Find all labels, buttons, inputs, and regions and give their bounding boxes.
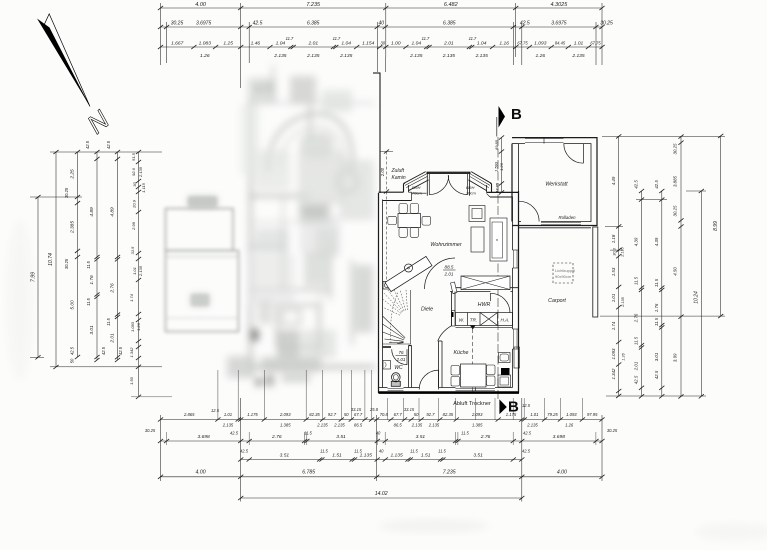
closet row with X (461, 276, 510, 290)
svg-text:1.01: 1.01 (132, 267, 137, 275)
dimension 2.00 Zuluft (dashed) (380, 149, 393, 282)
svg-text:1.76: 1.76 (654, 303, 659, 312)
svg-text:W.: W. (459, 318, 464, 323)
appliance row W TR X HA (456, 313, 513, 330)
svg-text:97.95: 97.95 (587, 412, 598, 417)
svg-text:1.04: 1.04 (412, 41, 422, 47)
roller shutter box outside right wall (514, 347, 520, 368)
svg-text:11.5: 11.5 (86, 260, 91, 268)
svg-text:1.115: 1.115 (141, 182, 146, 192)
left dimension chain 7.99 (31, 195, 41, 360)
left dimension chain C (2.25 2.385 5.00) (64, 150, 80, 363)
north arrow (37, 14, 115, 140)
svg-text:12.5: 12.5 (211, 408, 220, 413)
svg-text:30.25: 30.25 (171, 21, 184, 27)
svg-text:42.5: 42.5 (85, 140, 90, 149)
dryer exhaust dashed line (472, 329, 474, 392)
svg-text:4.00: 4.00 (557, 470, 567, 476)
svg-text:5.00: 5.00 (70, 300, 76, 310)
svg-text:8.99: 8.99 (713, 221, 719, 231)
svg-text:BRH: BRH (466, 185, 475, 190)
svg-text:30: 30 (381, 41, 386, 46)
extension line at 396.8 left (131, 396, 172, 398)
svg-text:4.50: 4.50 (673, 267, 678, 276)
WC washbasin (383, 361, 391, 370)
WC door arc (392, 349, 407, 364)
svg-text:4.49: 4.49 (611, 176, 616, 185)
svg-text:6.385: 6.385 (307, 21, 320, 27)
interior wall WC east (409, 346, 412, 388)
HWR door arc (491, 293, 511, 313)
svg-text:33.15: 33.15 (351, 407, 362, 412)
svg-text:70.8: 70.8 (380, 412, 389, 417)
left dimension chain D (4.89 1.76 3.01) (85, 140, 106, 362)
svg-text:2.135: 2.135 (222, 423, 234, 428)
kitchen door arc (438, 326, 451, 341)
svg-text:67.7: 67.7 (394, 412, 403, 417)
fireplace corner square (383, 282, 391, 290)
svg-text:2.135: 2.135 (339, 53, 353, 59)
stairs (383, 290, 411, 344)
bottom block extension verticals (161, 398, 603, 502)
blurred neighbour house half (188, 65, 375, 387)
bottom row A sub-labels (222, 423, 574, 428)
svg-text:4.00: 4.00 (195, 2, 207, 8)
french door jambs (427, 172, 469, 196)
svg-text:6.785: 6.785 (302, 470, 315, 476)
svg-text:30: 30 (132, 182, 137, 187)
svg-text:50: 50 (70, 358, 75, 363)
svg-text:12.5: 12.5 (522, 403, 531, 408)
svg-text:1.51: 1.51 (332, 453, 342, 459)
svg-text:11.5: 11.5 (86, 297, 91, 305)
svg-text:11.7: 11.7 (469, 36, 477, 41)
section line B-B (497, 137, 499, 399)
bottom wall (thick) (379, 388, 520, 393)
left dimension chain E (4.89 2.76 2.01) (106, 140, 123, 362)
svg-text:3.698: 3.698 (197, 434, 210, 440)
svg-text:Diele: Diele (421, 307, 433, 313)
svg-text:51.5: 51.5 (131, 152, 136, 161)
window bottom kitchen (456, 388, 496, 392)
svg-text:30.3: 30.3 (613, 247, 617, 255)
svg-text:1.093: 1.093 (130, 321, 135, 332)
bay right angled window wall (468, 172, 491, 191)
svg-text:11.5: 11.5 (354, 449, 362, 454)
svg-text:11.5: 11.5 (106, 317, 111, 325)
svg-text:42.5: 42.5 (520, 21, 530, 27)
label 88.5/2.01 (443, 265, 456, 277)
svg-text:Kamin: Kamin (392, 175, 406, 181)
right dimension chain 10.24 (694, 189, 704, 399)
bay left angled window wall (404, 172, 429, 191)
kitchen lower unit (498, 375, 511, 387)
svg-text:2.01: 2.01 (110, 333, 116, 344)
label Zuluft Kamin (391, 168, 406, 181)
svg-text:3.51: 3.51 (473, 453, 483, 459)
svg-text:82.35: 82.35 (443, 412, 454, 417)
svg-text:BRH: BRH (412, 185, 421, 190)
svg-text:2.76: 2.76 (634, 313, 639, 323)
label Diele (421, 307, 433, 313)
svg-text:42.5: 42.5 (240, 449, 249, 454)
label Kueche (453, 350, 468, 356)
svg-text:Wohnzimmer: Wohnzimmer (430, 242, 461, 248)
svg-text:42.5: 42.5 (101, 346, 106, 355)
svg-text:2.135: 2.135 (273, 53, 287, 59)
party wall upper line (373, 73, 380, 194)
svg-text:1.16: 1.16 (499, 41, 509, 47)
svg-text:42.5: 42.5 (253, 21, 263, 27)
svg-text:70cm: 70cm (412, 191, 422, 196)
svg-text:6.385: 6.385 (443, 21, 456, 27)
HWR west wall/shaft (452, 292, 456, 327)
svg-text:1.25: 1.25 (223, 41, 233, 47)
party wall (double) (379, 193, 383, 393)
svg-text:2.135: 2.135 (621, 246, 625, 257)
window right wall kitchen (513, 329, 519, 349)
svg-text:1.385: 1.385 (472, 423, 483, 428)
svg-text:1.04: 1.04 (341, 41, 351, 47)
top wall west segment (379, 192, 427, 200)
svg-text:7.235: 7.235 (443, 470, 456, 476)
svg-text:42.5: 42.5 (106, 140, 111, 149)
svg-text:33.15: 33.15 (404, 407, 415, 412)
svg-text:1.093: 1.093 (566, 412, 577, 417)
werkstatt roller door (541, 222, 581, 224)
svg-text:7.99: 7.99 (31, 272, 37, 282)
svg-text:Carport: Carport (548, 298, 566, 304)
svg-text:11.5: 11.5 (461, 431, 469, 436)
svg-text:30.25: 30.25 (673, 143, 678, 155)
svg-text:40: 40 (379, 21, 385, 27)
svg-text:40: 40 (379, 449, 384, 454)
svg-text:11.7: 11.7 (333, 36, 341, 41)
svg-text:3.885: 3.885 (673, 175, 678, 187)
svg-text:11.5: 11.5 (634, 276, 639, 285)
svg-text:1.74: 1.74 (611, 321, 616, 330)
svg-text:1.342: 1.342 (129, 347, 134, 358)
svg-text:30.25: 30.25 (145, 428, 156, 433)
svg-text:2.135: 2.135 (526, 423, 538, 428)
svg-text:20.9: 20.9 (132, 199, 137, 209)
werkstatt south outer line (519, 227, 591, 229)
svg-text:3.6975: 3.6975 (196, 21, 212, 27)
sideboard (471, 227, 484, 252)
svg-text:30.25: 30.25 (673, 205, 678, 217)
svg-text:Abluft Trockner: Abluft Trockner (453, 401, 491, 407)
label BRH 70cm right (466, 185, 476, 196)
entrance door arc (419, 370, 438, 389)
svg-text:2.385: 2.385 (70, 221, 76, 234)
svg-text:42.5: 42.5 (230, 431, 239, 436)
top block extension verticals (161, 3, 603, 88)
svg-text:1.175: 1.175 (247, 412, 258, 417)
svg-text:7.235: 7.235 (306, 2, 321, 8)
svg-text:1.083: 1.083 (199, 41, 212, 47)
label 76/2.01 (396, 350, 407, 362)
dining table (398, 214, 421, 228)
svg-text:90x90cm: 90x90cm (555, 274, 572, 279)
label HWR (478, 302, 491, 308)
svg-text:11.7: 11.7 (286, 36, 294, 41)
svg-text:1.135: 1.135 (390, 453, 403, 459)
svg-text:Zuluft: Zuluft (391, 168, 405, 174)
right block connectors (600, 136, 725, 396)
svg-text:1.26: 1.26 (499, 162, 504, 171)
svg-text:4.89: 4.89 (89, 207, 95, 217)
svg-text:1.01: 1.01 (574, 41, 584, 47)
svg-text:30.25: 30.25 (64, 258, 69, 269)
svg-text:2.135: 2.135 (138, 265, 143, 277)
wohnzimmer south wall + door (450, 288, 519, 292)
svg-text:HWR: HWR (478, 302, 491, 308)
svg-text:67.75: 67.75 (517, 41, 528, 46)
svg-text:42.5: 42.5 (634, 180, 639, 189)
werkstatt door top arc (564, 144, 584, 164)
svg-text:1.593: 1.593 (494, 161, 499, 172)
svg-text:2.135: 2.135 (428, 423, 440, 428)
svg-text:1.385: 1.385 (280, 423, 291, 428)
svg-text:69.85: 69.85 (494, 139, 499, 150)
svg-text:2.01: 2.01 (308, 41, 319, 47)
armchair (469, 206, 485, 222)
svg-text:Küche: Küche (453, 350, 468, 356)
svg-text:4.89: 4.89 (110, 207, 116, 217)
svg-text:1.154: 1.154 (362, 41, 375, 47)
kitchen north wall (456, 326, 513, 328)
svg-text:2.01: 2.01 (443, 41, 454, 47)
svg-text:31.5: 31.5 (130, 246, 135, 255)
right dimension chain R4 (30.25 3.885 30.25 4.50 3.99) (673, 135, 684, 399)
svg-text:H.A.: H.A. (501, 318, 510, 323)
svg-text:1.093: 1.093 (611, 348, 616, 360)
bay left stub wall (404, 184, 409, 193)
svg-text:2.25: 2.25 (70, 169, 76, 180)
fireplace angled unit (385, 256, 432, 291)
svg-text:1.26: 1.26 (565, 423, 574, 428)
svg-text:67.7: 67.7 (354, 412, 363, 417)
svg-text:1.26: 1.26 (136, 322, 141, 331)
kitchen table (461, 364, 487, 387)
svg-text:14.02: 14.02 (375, 491, 388, 497)
couch (490, 218, 507, 261)
WC toilet (391, 373, 400, 387)
svg-text:50: 50 (414, 412, 419, 417)
section marker B bottom (499, 399, 519, 416)
kitchen west wall (439, 341, 443, 388)
svg-text:Lichtkuppel: Lichtkuppel (555, 268, 575, 273)
bay right stub wall (487, 184, 492, 193)
svg-text:42.5: 42.5 (70, 346, 75, 355)
svg-text:42.5: 42.5 (654, 180, 659, 189)
svg-text:11.7: 11.7 (422, 36, 430, 41)
svg-text:2.135: 2.135 (138, 166, 143, 178)
svg-text:11.5: 11.5 (304, 431, 312, 436)
svg-text:2.093: 2.093 (279, 412, 291, 417)
label Rolladen (559, 215, 577, 220)
svg-text:1.00: 1.00 (391, 41, 401, 47)
kitchen chairs (451, 365, 495, 386)
svg-text:3.6975: 3.6975 (551, 21, 567, 27)
svg-text:2.135: 2.135 (442, 53, 456, 59)
right dimension chain R1 (4.49 1.18 1.53 ...) (611, 134, 626, 398)
label BRH 70cm left (412, 185, 422, 196)
svg-text:2.135: 2.135 (475, 53, 489, 59)
svg-text:2.093: 2.093 (471, 412, 483, 417)
top dimension row 4 sub-labels (2.135 / 1.26) (200, 53, 585, 59)
top dimension row 2 (30.25 3.6975 42.5 6.385 40 ...) (158, 21, 613, 30)
svg-text:1.51: 1.51 (421, 453, 431, 459)
svg-text:92.7: 92.7 (328, 412, 337, 417)
left block connectors (30, 152, 162, 367)
svg-text:1.667: 1.667 (171, 41, 184, 47)
svg-text:2.135: 2.135 (306, 53, 320, 59)
kitchen stove (dark) (501, 368, 510, 375)
svg-text:1.26: 1.26 (536, 53, 546, 59)
bottom dimension row E (4.00 6.785 7.235 4.00) (158, 470, 605, 479)
window bottom WC (388, 388, 404, 390)
svg-text:2.865: 2.865 (183, 412, 195, 417)
living room door arc (425, 258, 458, 294)
interior wall WC north + door (383, 346, 412, 348)
svg-text:4.39: 4.39 (654, 237, 659, 246)
svg-text:92.7: 92.7 (426, 412, 435, 417)
svg-text:B: B (508, 399, 519, 416)
svg-text:Werkstatt: Werkstatt (545, 182, 568, 188)
label Abluft Trockner (453, 401, 491, 407)
label WC (394, 365, 403, 371)
svg-text:1.04: 1.04 (477, 41, 487, 47)
svg-text:2.01: 2.01 (396, 357, 406, 362)
werkstatt walls (512, 138, 597, 226)
label Carport (548, 298, 566, 304)
svg-text:1.093: 1.093 (534, 41, 547, 47)
svg-text:Rolladen: Rolladen (559, 215, 577, 220)
bottom dimension row C (3.698 2.76 3.51 40 ...) (145, 428, 618, 443)
svg-text:3.51: 3.51 (416, 434, 426, 440)
window right wall living (513, 250, 519, 268)
svg-text:3.51: 3.51 (280, 453, 290, 459)
svg-text:2.01: 2.01 (444, 272, 454, 277)
svg-text:11.5: 11.5 (438, 449, 446, 454)
svg-text:11.5: 11.5 (410, 449, 418, 454)
kitchen sink unit (499, 353, 511, 363)
svg-text:70cm: 70cm (466, 191, 476, 196)
svg-text:WC: WC (394, 365, 403, 371)
french door lintel (427, 172, 471, 174)
svg-text:1.53: 1.53 (611, 267, 616, 276)
svg-text:4.00: 4.00 (196, 470, 206, 476)
svg-text:B: B (511, 106, 522, 123)
svg-text:1.74: 1.74 (129, 293, 134, 302)
svg-text:50: 50 (344, 412, 349, 417)
svg-text:42.5: 42.5 (118, 346, 123, 355)
svg-text:42.5: 42.5 (654, 370, 659, 379)
svg-text:2.01: 2.01 (634, 361, 639, 371)
svg-text:4.3025: 4.3025 (550, 2, 568, 8)
right dimension chain R3 (42.5 4.39 1.76 3.01 42.5) (654, 180, 664, 399)
svg-text:2.99: 2.99 (131, 221, 136, 231)
svg-text:76: 76 (398, 350, 404, 355)
svg-text:11.5: 11.5 (654, 278, 659, 287)
right dimension chain 8.99 (713, 134, 723, 318)
svg-text:3.99: 3.99 (673, 353, 678, 362)
svg-text:86.5: 86.5 (354, 423, 363, 428)
svg-text:1.26: 1.26 (622, 352, 626, 360)
svg-text:2.76: 2.76 (480, 434, 491, 440)
label Werkstatt (545, 182, 568, 188)
svg-text:2.135: 2.135 (409, 53, 423, 59)
bottom dimension row F (14.02) (238, 491, 524, 500)
right dimension chain R2 (42.5 4.39 2.76 2.01 42.5) (634, 180, 645, 399)
left dimension chain F (fine chain) (129, 150, 146, 399)
svg-text:10.24: 10.24 (694, 291, 700, 304)
svg-text:2.135: 2.135 (316, 423, 328, 428)
svg-text:1.01: 1.01 (224, 412, 232, 417)
svg-text:84.45: 84.45 (555, 41, 566, 46)
label Wohnzimmer (430, 242, 461, 248)
svg-text:1.01: 1.01 (611, 293, 616, 302)
svg-text:82.35: 82.35 (309, 412, 320, 417)
svg-text:1.76: 1.76 (89, 275, 95, 285)
carport east wall (593, 227, 598, 317)
svg-text:1.01: 1.01 (530, 412, 538, 417)
dining chairs (388, 204, 431, 238)
svg-text:2.135: 2.135 (571, 53, 585, 59)
svg-text:1.50: 1.50 (129, 376, 134, 385)
dimension chain 69.85/1.593/44.85 (494, 135, 505, 194)
svg-text:92.6: 92.6 (131, 167, 136, 176)
bottom dimension row A (fine chain) (158, 403, 605, 422)
section marker B top (497, 106, 522, 137)
svg-text:79.25: 79.25 (547, 412, 558, 417)
right outer wall (513, 191, 519, 393)
svg-text:11.5: 11.5 (634, 336, 639, 345)
svg-text:6.482: 6.482 (444, 2, 458, 8)
svg-text:3.01: 3.01 (89, 325, 95, 335)
svg-text:3.698: 3.698 (553, 434, 566, 440)
svg-text:1.18: 1.18 (611, 234, 616, 243)
bottom dimension row D (3.51 1.51 1.135 ...) (238, 449, 531, 462)
svg-text:11.5: 11.5 (654, 317, 659, 326)
svg-text:1.46: 1.46 (251, 41, 261, 47)
svg-text:1.342: 1.342 (611, 368, 616, 380)
svg-text:10.74: 10.74 (48, 253, 54, 266)
svg-text:TR.: TR. (470, 318, 477, 323)
svg-text:2.135: 2.135 (333, 423, 345, 428)
svg-text:2.135: 2.135 (411, 423, 423, 428)
svg-text:3.51: 3.51 (336, 434, 346, 440)
svg-text:11.5: 11.5 (320, 449, 328, 454)
svg-text:1.04: 1.04 (276, 41, 286, 47)
svg-text:42.5: 42.5 (523, 431, 532, 436)
svg-text:30.25: 30.25 (607, 428, 618, 433)
svg-text:3.01: 3.01 (654, 352, 659, 361)
svg-text:42.5: 42.5 (522, 449, 531, 454)
top dimension row 3 (window chain) (158, 36, 605, 49)
french door arcs (429, 175, 467, 194)
svg-text:86.5: 86.5 (394, 423, 403, 428)
appliance labels (459, 318, 510, 323)
werkstatt door left arc (519, 201, 539, 221)
top wall east segment (487, 192, 519, 197)
svg-text:88.5: 88.5 (445, 265, 454, 270)
svg-text:25.8: 25.8 (369, 407, 379, 412)
carport skylight dashed box (553, 263, 575, 283)
svg-text:44.85: 44.85 (495, 182, 500, 193)
left dimension chain 10.74 (48, 150, 59, 369)
